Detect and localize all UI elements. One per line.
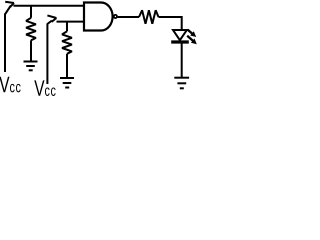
LED D1 cathode bar bbox=[171, 40, 189, 43]
output wire bbox=[118, 16, 139, 18]
LED D1 emission arrow 1 head bbox=[190, 31, 196, 37]
resistor R1 zigzag bbox=[26, 18, 36, 41]
ground 3 middle bar bbox=[177, 82, 186, 84]
ground 2 short bar bbox=[65, 87, 69, 89]
NAND gate U1 body bbox=[84, 3, 113, 31]
wire A (input A to gate) bbox=[14, 5, 85, 7]
switch SW2 arrowhead upper stroke bbox=[47, 15, 56, 18]
resistor R1 bottom stub bbox=[30, 40, 32, 61]
wire from Vcc2 up to switch SW2 bbox=[46, 24, 48, 85]
ground 3 long bar bbox=[174, 77, 189, 79]
resistor R1 top stub bbox=[30, 6, 32, 18]
switch SW2 arm bbox=[47, 21, 52, 24]
wire from Vcc1 up to switch SW1 bbox=[4, 14, 6, 73]
resistor R3 zigzag bbox=[139, 10, 159, 23]
switch SW2 arrowhead lower stroke bbox=[52, 18, 57, 22]
wire B (input B to gate) bbox=[57, 21, 85, 23]
ground 3 short bar bbox=[180, 87, 184, 89]
LED D1 emission arrow 2 bbox=[187, 36, 194, 42]
wire from R3 to LED corner bbox=[159, 17, 182, 30]
resistor R2 zigzag bbox=[62, 31, 72, 54]
switch SW1 arrowhead upper stroke bbox=[5, 2, 14, 3]
NAND gate U1 output bubble bbox=[114, 15, 117, 18]
label Vcc 2 bbox=[34, 80, 55, 96]
ground 1 middle bar bbox=[26, 65, 35, 67]
switch SW1 arm bbox=[5, 6, 11, 15]
LED D1 emission arrow 2 head bbox=[191, 39, 197, 45]
ground 1 long bar bbox=[24, 61, 38, 63]
ground 2 long bar bbox=[60, 77, 74, 79]
LED D1 triangle bbox=[173, 30, 187, 40]
resistor R2 top stub bbox=[66, 22, 68, 32]
resistor R2 bottom stub bbox=[66, 54, 68, 78]
switch SW1 arrowhead lower stroke bbox=[10, 3, 14, 7]
wire from LED to ground 3 bbox=[181, 44, 183, 78]
LED D1 emission arrow 1 bbox=[188, 30, 194, 35]
ground 1 short bar bbox=[29, 69, 33, 71]
ground 2 middle bar bbox=[63, 82, 72, 84]
label Vcc 1 bbox=[0, 77, 21, 93]
